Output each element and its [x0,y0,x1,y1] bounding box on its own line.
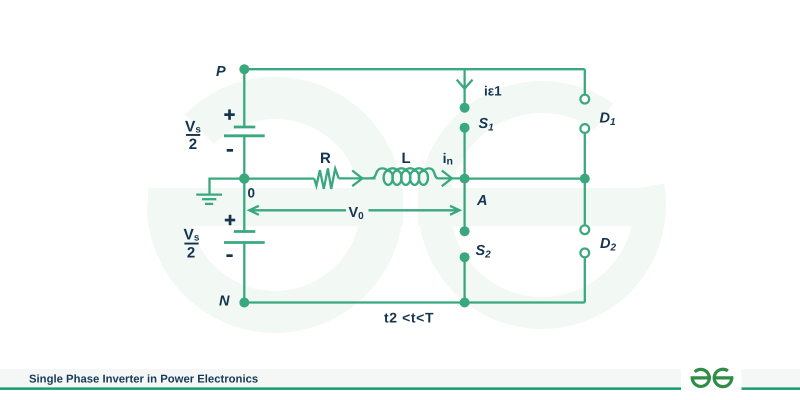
svg-text:t2 <t<T: t2 <t<T [384,310,434,326]
arrow chevron is1 down [457,80,473,89]
svg-text:S2: S2 [476,243,492,261]
inductor L coil rail [371,168,443,178]
wire top bus P to corner [244,68,585,70]
bottom bus junction dot [460,298,470,308]
diode D1 upper terminal circle [580,95,589,104]
wire diode D1 lower lead [584,133,586,179]
watermark left ring [148,98,403,312]
switch S1 lower contact dot [460,123,470,133]
wire resistor to inductor [339,177,376,179]
label + battery1 [224,113,234,116]
footer green line left [0,387,681,390]
diode D1 lower terminal circle [580,124,589,133]
ground bar1 [196,193,222,195]
wire battery2 to node N [243,243,245,303]
node A junction dot [460,174,470,184]
V0 measure arrow right segment [369,209,459,211]
inductor L coil loop 2 [392,171,401,185]
wire switch S1 lower lead to node A [463,128,465,179]
V0 measure arrow left segment [250,209,346,211]
resistor R zigzag [314,168,339,189]
fraction bar lower [184,243,198,245]
svg-text:D1: D1 [600,111,616,129]
node P junction dot [239,64,249,74]
wire node 0 to resistor [244,177,314,179]
battery V1 long plate [224,134,265,137]
wire bottom bus N to corner [244,301,585,303]
switch S2 upper contact dot [460,226,470,236]
current arrow chevron 1 [352,171,362,187]
battery V2 short plate [234,230,256,233]
wire node A to diode branch [465,177,585,179]
switch S1 upper contact dot [460,103,470,113]
battery V1 short plate [234,126,256,129]
logo GfG right G [713,369,733,386]
inductor L coil loop 1 [384,171,393,185]
svg-text:Single Phase Inverter in Power: Single Phase Inverter in Power Electroni… [29,373,258,385]
wire switch S2 lower lead to bottom bus [463,258,465,303]
svg-text:Vs: Vs [184,227,200,244]
V0 arrowhead left [249,206,258,215]
fraction bar upper [186,134,200,136]
wire node A to switch S2 [463,179,465,232]
inductor L coil loop 3 [401,171,410,185]
wire right column top (D1 branch) [584,69,586,95]
footer green line right [742,387,800,390]
wire S-branch top (with arrow) [463,69,465,104]
inductor L coil loop 5 [419,171,428,185]
ground bar2 [202,198,216,200]
label - battery2 [226,254,232,257]
svg-text:D2: D2 [600,236,616,254]
current arrow chevron 2 (i_n) [442,171,452,187]
wire diode branch middle to D2 [584,179,586,226]
footer band right [742,369,800,387]
label + battery2 [225,219,235,222]
diode branch junction dot [580,174,590,184]
watermark right ring [418,97,652,313]
switch S2 lower contact dot [460,252,470,262]
svg-text:P: P [216,64,226,80]
svg-text:N: N [219,294,230,310]
node 0 junction dot [239,173,249,183]
node N junction dot [239,298,249,308]
inductor L coil loop 4 [410,171,419,185]
svg-text:0: 0 [248,186,256,201]
diode D2 upper terminal circle [580,225,589,234]
svg-text:L: L [402,150,411,167]
wire left column P to battery1 [243,69,245,127]
label - battery1 [227,149,233,152]
diode D2 lower terminal circle [580,249,589,258]
wire battery1 to node 0 [243,136,245,179]
battery V2 long plate [224,241,265,244]
svg-text:R: R [320,150,331,167]
wire node 0 to battery2 [243,179,245,232]
svg-text:2: 2 [187,244,195,261]
svg-text:A: A [476,193,487,209]
footer band left [0,369,681,387]
wire diode D2 lower lead to bottom bus [584,257,586,302]
ground bar3 [205,203,213,205]
svg-text:2: 2 [189,136,197,153]
V0 arrowhead right [450,206,460,215]
svg-text:iε1: iε1 [484,84,502,99]
wire ground stub [210,179,245,195]
logo GfG left G [691,369,711,386]
wire inductor to node A [442,177,465,179]
